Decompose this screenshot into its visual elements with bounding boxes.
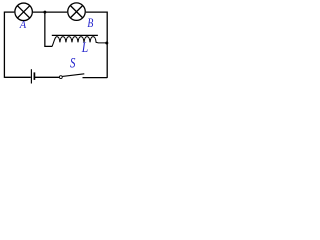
node junction dot left (top wire) — [43, 11, 46, 14]
svg-text:L: L — [81, 39, 88, 56]
battery short plate — [33, 72, 35, 80]
node junction dot right (right vertical) — [105, 42, 108, 45]
lamp B — [68, 3, 86, 21]
wire top-left segment — [4, 11, 14, 13]
wire bottom-left segment (corner to battery) — [4, 76, 30, 78]
wire top-right segment (lamp B to corner) — [86, 11, 107, 13]
switch S arm — [62, 74, 84, 77]
wire right vertical — [106, 12, 108, 78]
wire bottom middle segment (battery to switch) — [35, 76, 59, 78]
inductor core bar — [52, 34, 98, 36]
wire left vertical — [3, 12, 5, 78]
lamp A — [15, 3, 32, 21]
battery long plate — [30, 69, 32, 83]
svg-text:A: A — [19, 19, 27, 31]
wire inductor branch left lead — [45, 12, 52, 46]
svg-text:S: S — [70, 54, 76, 71]
wire bottom-right segment (switch to corner) — [83, 77, 108, 79]
wire top middle segment (lamp A to lamp B) — [33, 11, 67, 13]
svg-text:B: B — [87, 17, 93, 30]
switch S pivot circle — [59, 76, 62, 79]
inductor L coil — [52, 37, 107, 47]
